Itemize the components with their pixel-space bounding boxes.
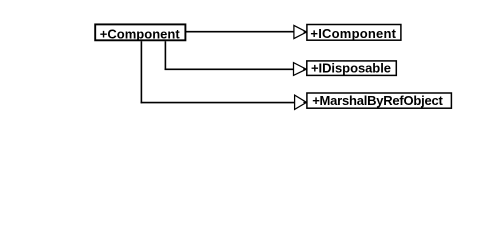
class box: Component xyxy=(95,24,185,40)
junction: T2 tip meets IDisposable border xyxy=(303,68,307,70)
wire: elbow to MarshalByRefObject (horizontal segment) xyxy=(141,102,295,104)
junction: T3 tip meets MarshalByRefObject border xyxy=(303,101,307,103)
svg-text:+MarshalByRefObject: +MarshalByRefObject xyxy=(312,93,443,108)
svg-text:+IComponent: +IComponent xyxy=(310,26,396,41)
svg-text:+IDisposable: +IDisposable xyxy=(311,61,391,76)
svg-text:+Component: +Component xyxy=(100,26,181,41)
class box: MarshalByRefObject xyxy=(307,93,452,108)
interface box: IDisposable xyxy=(307,61,397,76)
junction: T1 tip meets IComponent border xyxy=(304,31,308,33)
arrowhead: hollow triangle to MarshalByRefObject xyxy=(295,95,307,109)
wire: elbow to IDisposable (horizontal segment) xyxy=(165,68,294,70)
wire: Component bottom to MarshalByRefObject (vertical segment) xyxy=(140,41,142,103)
arrowhead: hollow triangle to IDisposable xyxy=(294,63,307,76)
arrowhead: hollow triangle to IComponent xyxy=(294,25,307,38)
wire: Component bottom to IDisposable (vertical segment) xyxy=(164,41,166,70)
interface box: IComponent xyxy=(307,25,401,41)
wire: Component to IComponent (horizontal) xyxy=(185,31,294,33)
